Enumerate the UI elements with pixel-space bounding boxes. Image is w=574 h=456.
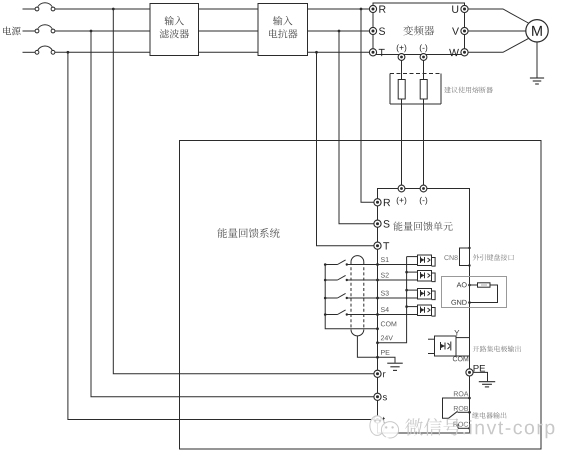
unit terminal COM [376, 321, 396, 330]
wire phase3 filter to reactor [199, 51, 259, 53]
switch K1 [324, 260, 348, 266]
junction phase2 tap to S [338, 30, 341, 33]
inverter box 变频器 [373, 3, 465, 55]
wire (+) inverter to fuse [401, 60, 403, 79]
unit terminal AO [457, 282, 471, 287]
wire W to motor [468, 39, 528, 53]
wire phase1 filter to reactor [199, 8, 259, 10]
unit terminal ROA [454, 391, 471, 399]
unit terminal S3 [376, 291, 389, 300]
unit terminal R [374, 199, 390, 206]
inverter terminal (+) [397, 44, 407, 60]
wire switch to terminal S3 [347, 297, 418, 299]
wire shield to PE [357, 336, 377, 357]
breaker QF1 [23, 3, 55, 11]
junction phase3 tap to t [67, 51, 70, 54]
inverter terminal U [452, 5, 468, 13]
inverter terminal V [452, 27, 468, 34]
wire COM to edge [453, 356, 470, 361]
motor M [526, 20, 548, 42]
unit terminal PE right [466, 365, 485, 376]
wire phase1 breaker to filter [55, 8, 150, 10]
label 能量回馈系统 [217, 228, 279, 238]
wire tap to unit T [317, 52, 375, 245]
shielded cable [351, 256, 364, 336]
unit terminal S4 [376, 307, 389, 316]
junction phase1 tap to r [112, 8, 115, 11]
label 能量回馈单元 [393, 222, 452, 231]
unit terminal S [374, 220, 390, 228]
unit terminal S1 [376, 257, 389, 266]
label 继电器输出 [472, 412, 506, 419]
switch K2 [324, 275, 348, 281]
wire switch to terminal S2 [347, 279, 418, 281]
label 建议使用熔断器 [444, 87, 493, 93]
relay contact [449, 411, 470, 428]
opto common wire [378, 257, 407, 343]
inverter terminal S [369, 27, 385, 35]
unit terminal ROC [454, 422, 471, 430]
unit PE internal ground [378, 357, 403, 370]
input reactor box 输入电抗器 [258, 4, 308, 56]
unit terminal (-) [420, 185, 427, 205]
unit terminal ROB [454, 406, 471, 414]
wire switch to terminal S4 [347, 314, 418, 316]
energy feedback system box 能量回馈系统 [180, 141, 542, 450]
unit terminal (+) [397, 185, 407, 205]
inverter terminal (-) [420, 44, 427, 60]
connector CN8 [444, 247, 470, 267]
unit terminal S2 [376, 273, 389, 282]
wire tap to unit s [91, 31, 374, 397]
optocoupler input S2 [405, 271, 435, 282]
watermark wechat logo [369, 416, 399, 441]
power source label 电源 [3, 27, 20, 36]
motor ground [530, 78, 544, 84]
wire motor to ground [536, 42, 538, 78]
wire phase2 filter to reactor [199, 30, 259, 32]
junction phase2 tap to s [90, 30, 93, 33]
energy feedback unit box 能量回馈单元 [378, 189, 470, 434]
wire phase2 reactor to inverter S [308, 30, 370, 32]
wire Y to edge [454, 330, 469, 338]
breaker QF3 [23, 46, 55, 54]
fuse recommendation dashed box [390, 74, 441, 105]
wire U to motor [468, 9, 528, 23]
optocoupler input S3 [405, 289, 435, 300]
switch K3 [324, 293, 348, 299]
wire tap to unit t [68, 52, 374, 419]
optocoupler input S1 [407, 255, 436, 266]
inverter terminal T [369, 49, 384, 56]
wire tap to unit S [339, 31, 374, 224]
unit terminal r [374, 370, 386, 377]
inverter terminal W [449, 49, 468, 56]
wire ROA to relay [443, 398, 470, 418]
junction phase3 tap to T [315, 51, 318, 54]
breaker QF2 [23, 25, 55, 33]
unit terminal T [374, 242, 389, 249]
label 外引键盘接口 [473, 254, 514, 260]
inverter terminal R [369, 5, 385, 12]
PE ground [473, 372, 495, 387]
wire phase3 reactor to inverter T [308, 51, 370, 53]
wire phase2 breaker to filter [55, 30, 150, 32]
wire switch to terminal S1 [347, 264, 418, 266]
fuse FU1 [398, 80, 405, 100]
wire tap to unit r [113, 9, 374, 374]
input filter box 输入滤波器 [150, 4, 199, 56]
wire phase1 reactor to inverter R [308, 8, 370, 10]
fuse FU2 [420, 80, 427, 100]
switch K4 [324, 310, 348, 316]
unit terminal GND [451, 300, 470, 305]
wire (+) fuse to unit [401, 99, 403, 185]
watermark text 微信号:invt-corp [405, 418, 554, 438]
wire meter loop [470, 285, 498, 303]
unit terminal 24V [376, 335, 393, 344]
external meter box [442, 277, 507, 308]
switch common bracket [325, 265, 377, 329]
wire V to motor [468, 30, 526, 32]
wire tap to unit R [361, 9, 374, 202]
optocoupler input S4 [405, 305, 435, 316]
label 开路集电极输出 [473, 346, 521, 353]
junction phase1 tap to R [360, 8, 363, 11]
wire (-) inverter to fuse [423, 60, 425, 79]
unit terminal s [374, 393, 387, 400]
wire phase3 breaker to filter [55, 51, 150, 53]
wire (-) fuse to unit [423, 99, 425, 185]
unit terminal t [374, 416, 385, 423]
unit terminal PE [376, 350, 389, 359]
opto output Y/COM [428, 336, 456, 356]
meter resistor [470, 283, 491, 287]
